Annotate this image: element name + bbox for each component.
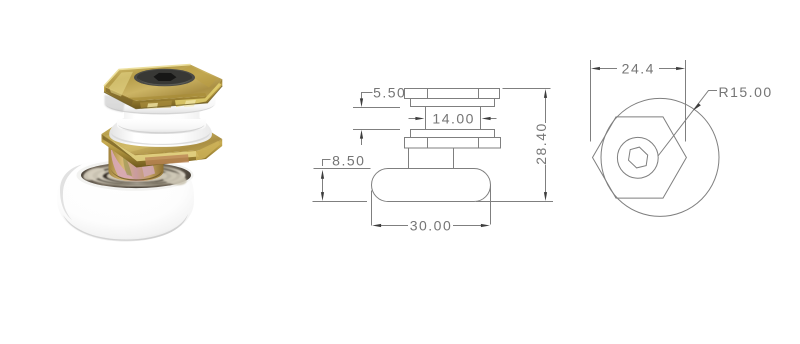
dim texts front view [622, 61, 773, 100]
dim 8.50 bracket and extension lines [313, 160, 371, 202]
dim 30.00 extension and dimension lines [372, 185, 491, 226]
front: wheel circle [601, 98, 719, 216]
arrow 5.50 up [360, 130, 363, 139]
arrow 24.4 right [676, 67, 685, 70]
photo: wheel rim around bearing [77, 160, 194, 191]
arrow 28.40 up [544, 89, 547, 98]
arrow R15.00 [693, 103, 701, 111]
front: inner circle [617, 137, 658, 178]
side: hub stem [409, 148, 454, 169]
arrow 24.4 left [591, 67, 600, 70]
arrow 14.00 right [482, 117, 491, 120]
svg-text:R15.00: R15.00 [719, 84, 773, 100]
photo: lower brass hex nut [102, 118, 223, 167]
photo: spool middle flange ridge [117, 119, 206, 134]
arrow 28.40 down [544, 192, 547, 201]
arrowheads side view [321, 89, 547, 227]
dim 5.50 bracket and extension lines [353, 93, 400, 146]
side: upper washer [411, 99, 495, 107]
arrow 30.00 right [481, 224, 490, 227]
arrow 30.00 left [372, 224, 381, 227]
leader R15.00 [658, 91, 717, 157]
svg-text:30.00: 30.00 [410, 218, 453, 234]
photo: white plastic washer disc [105, 93, 216, 115]
photo: white plastic spool skirt [109, 110, 212, 147]
svg-text:14.00: 14.00 [432, 111, 475, 127]
photo: top nut socket hole [134, 69, 195, 87]
svg-text:8.50: 8.50 [332, 153, 365, 169]
arrow 8.50 up [321, 170, 324, 179]
side: lower hex nut [405, 138, 501, 149]
dim texts side view [332, 84, 549, 233]
photo: brass bushing cylinder [109, 145, 164, 181]
side: top hex nut [405, 89, 500, 99]
dim 24.4 extension and dimension lines [591, 60, 686, 142]
arrow 5.50 down [360, 98, 363, 107]
dim 28.40 extension and dimension lines [476, 89, 553, 202]
photo: white roller wheel body [57, 161, 194, 242]
arrowheads front view [591, 67, 701, 111]
side: lower washer [411, 130, 495, 138]
arrow 14.00 left [415, 117, 424, 120]
front: hex nut outline [593, 117, 687, 198]
photo: bearing steel race and balls [82, 164, 188, 187]
photo: top brass hex nut sides [104, 79, 222, 109]
front: socket hexagon [629, 147, 648, 168]
side: wheel (stadium profile) [372, 169, 491, 202]
svg-text:24.4: 24.4 [622, 61, 655, 77]
dim 14.00 arrow tails [409, 118, 497, 120]
photo: bearing dark outer ring [81, 162, 191, 188]
photo: top brass hex nut top face [104, 65, 222, 101]
svg-text:5.50: 5.50 [373, 84, 406, 100]
side: cylinder spacer [426, 107, 481, 130]
arrow 8.50 down [321, 192, 324, 201]
svg-text:28.40: 28.40 [533, 122, 549, 165]
